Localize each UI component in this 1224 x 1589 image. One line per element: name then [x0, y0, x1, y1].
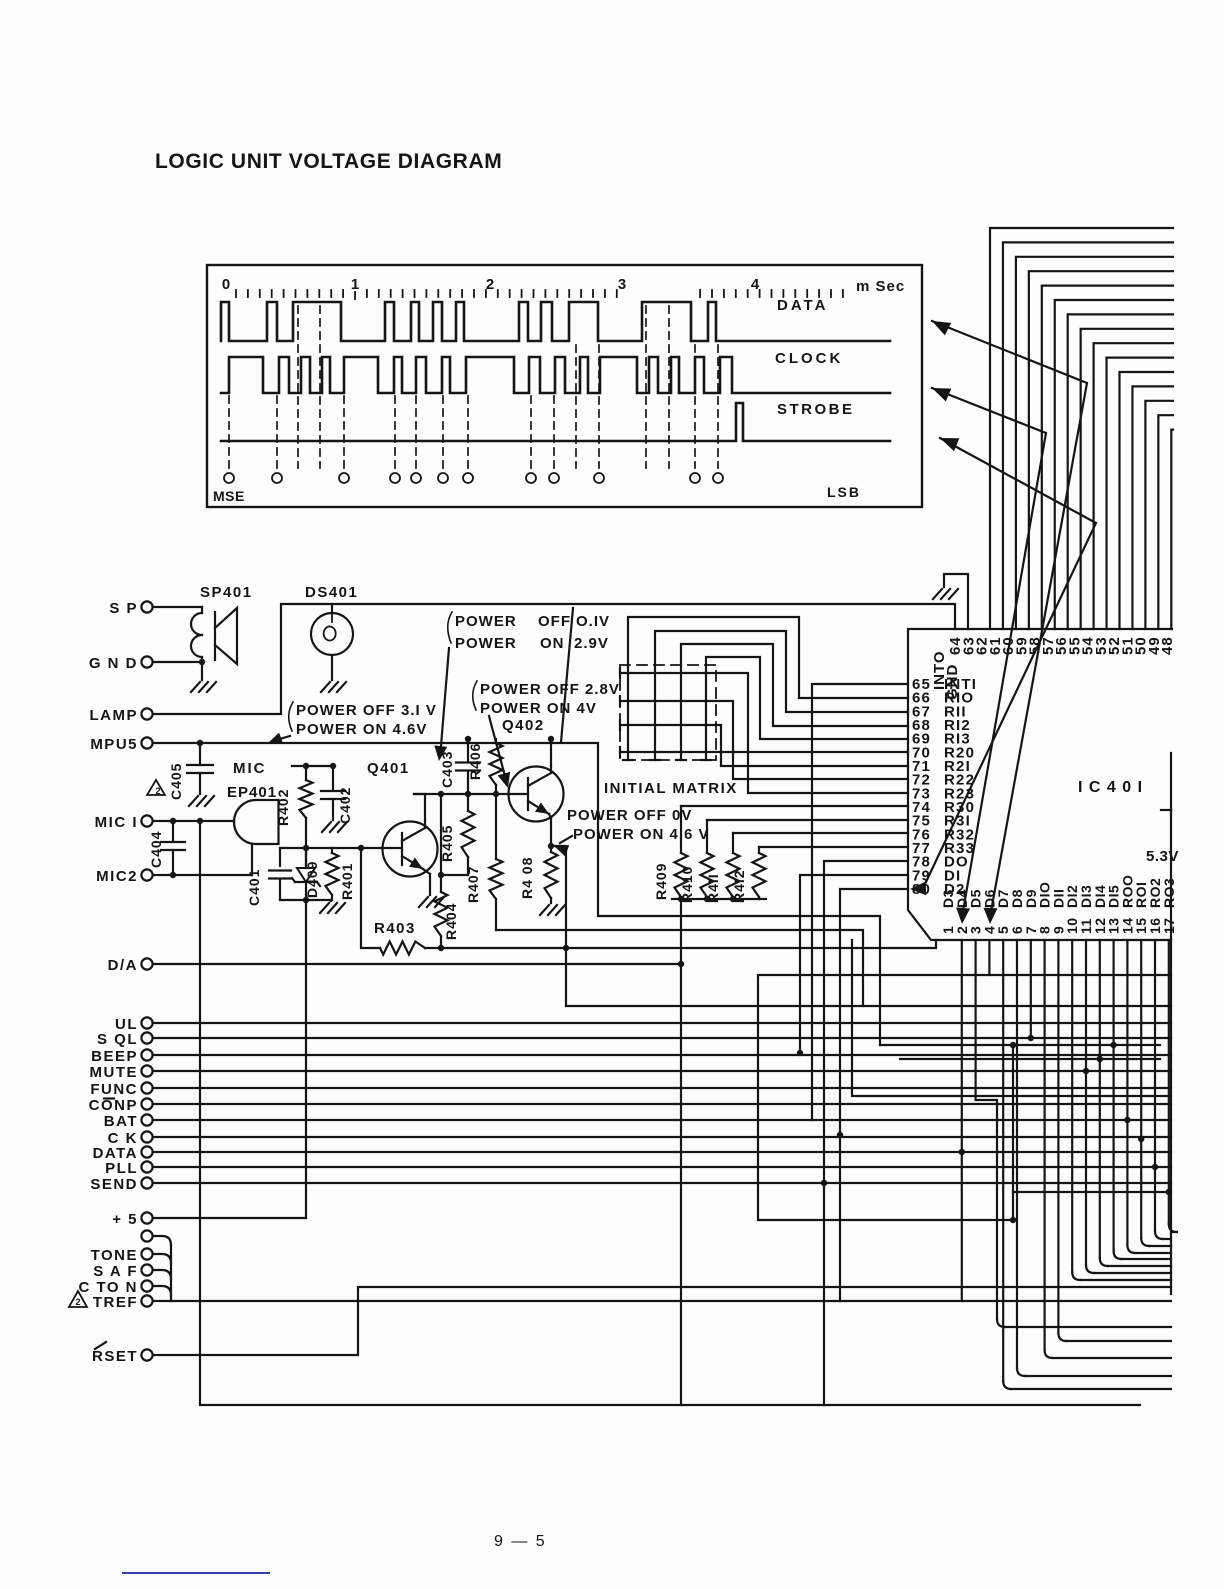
- warning triangle TREF: [69, 1291, 87, 1307]
- timing dashed bit lines: [229, 306, 718, 468]
- pin4 D6 wire: [988, 940, 990, 975]
- terminal SP: [109, 600, 152, 617]
- junction R403 R404: [438, 945, 444, 951]
- wire +5: [153, 1217, 306, 1219]
- line 1045 MPU5 to pin13: [880, 1044, 1160, 1046]
- junction speaker gnd: [199, 659, 205, 665]
- svg-text:RO3: RO3: [1161, 878, 1177, 908]
- IC401 outline: [908, 629, 1172, 940]
- wire R409 bottom rail: [672, 898, 766, 900]
- svg-text:R401: R401: [339, 863, 355, 900]
- pin14-17 wires: [1124, 940, 1177, 1253]
- terminal GND: [89, 655, 153, 672]
- svg-text:EP401: EP401: [227, 784, 277, 801]
- terminal CK: [108, 1130, 153, 1147]
- svg-text:2.9V: 2.9V: [574, 635, 609, 652]
- ground Q401: [419, 897, 428, 907]
- terminal LAMP: [90, 707, 153, 724]
- pin78 D0 wire: [824, 861, 908, 1405]
- junction 766 C402: [330, 763, 336, 769]
- capacitor C403: [467, 739, 469, 761]
- junction MPU5 C405: [197, 740, 203, 746]
- wire node lamp to IC pin64: [332, 604, 955, 629]
- terminal +5: [112, 1211, 152, 1228]
- pin80 arrowhead: [910, 881, 926, 895]
- svg-text:POWER OFF 3.I V: POWER OFF 3.I V: [296, 702, 437, 719]
- svg-text:2: 2: [486, 276, 494, 293]
- terminal PLL: [105, 1160, 152, 1177]
- svg-text:S A F: S A F: [93, 1263, 138, 1280]
- svg-text:POWER OFF 0V: POWER OFF 0V: [567, 807, 692, 824]
- wire R409 to pin74: [681, 805, 908, 807]
- line 1192: [1012, 1045, 1014, 1220]
- terminal NC: [141, 1230, 152, 1241]
- terminal FUNC: [90, 1081, 152, 1098]
- transistor Q401: [382, 820, 438, 877]
- junction pin11 MUTE: [1083, 1068, 1089, 1074]
- junction MIC2 C404: [170, 872, 176, 878]
- svg-text:2: 2: [155, 786, 160, 796]
- resistor R405: [467, 794, 469, 811]
- wire GND to speaker: [153, 661, 202, 663]
- svg-text:MIC2: MIC2: [96, 868, 138, 885]
- svg-text:m Sec: m Sec: [856, 278, 905, 295]
- top bus nested wires pins 62-48: [990, 228, 1173, 629]
- terminal SAF: [93, 1263, 152, 1280]
- wire emitter to lower bus: [551, 846, 566, 1006]
- +5 rail vertical: [305, 848, 307, 868]
- pin7 D9 wire to SQL: [1030, 940, 1032, 1038]
- wire LAMP terminal: [153, 604, 332, 714]
- capacitor C401: [279, 848, 281, 866]
- svg-text:INITIAL MATRIX: INITIAL MATRIX: [604, 780, 738, 797]
- junction MPU5 Q402: [548, 736, 554, 742]
- svg-text:17: 17: [1161, 917, 1177, 934]
- pin3 D5 wire: [976, 940, 997, 1319]
- pin80 D2 wire: [840, 889, 908, 1301]
- svg-text:POWER ON 4.6 V: POWER ON 4.6 V: [573, 826, 710, 843]
- resistor R412: [758, 847, 760, 853]
- matrix row R22: [619, 696, 621, 706]
- junction MIC1 C404: [170, 818, 176, 824]
- resistor R408: [550, 846, 552, 852]
- wire mic bottom: [251, 844, 253, 875]
- svg-text:R4 08: R4 08: [519, 857, 535, 899]
- svg-text:S P: S P: [109, 600, 138, 617]
- svg-text:ON: ON: [540, 635, 565, 652]
- wire D/A: [153, 963, 681, 965]
- svg-text:GND: GND: [944, 664, 961, 700]
- svg-text:R406: R406: [467, 743, 483, 780]
- svg-text:TREF: TREF: [93, 1294, 138, 1311]
- resistor R406: [495, 739, 497, 743]
- wire Q402 collector: [550, 739, 552, 766]
- timing diagram box: [207, 265, 922, 507]
- wire Q401 collector to rail794: [424, 794, 426, 820]
- junction R404 R405: [438, 872, 444, 878]
- svg-text:48: 48: [1159, 636, 1176, 655]
- terminal RSET: [92, 1348, 153, 1365]
- blue rule: [123, 1572, 269, 1574]
- terminal CTON: [78, 1279, 152, 1296]
- pin63 GND wire and ground: [944, 574, 968, 629]
- bus wires UL..SEND: [153, 1023, 1171, 1183]
- IC401 bottom pin labels 1-17: [940, 875, 1177, 934]
- wire R407 output: [496, 930, 863, 1006]
- terminal TONE: [91, 1247, 153, 1264]
- bit circles: [224, 473, 723, 483]
- svg-text:MSE: MSE: [213, 488, 245, 504]
- resistor R407: [495, 794, 497, 859]
- svg-text:SEND: SEND: [90, 1176, 138, 1193]
- CLOCK waveform: [221, 357, 890, 393]
- svg-text:C404: C404: [148, 831, 164, 868]
- terminal UL: [115, 1016, 153, 1033]
- junction MIC1 drop: [197, 818, 203, 824]
- line 1059: [900, 1058, 1160, 1060]
- line 975 chain: [758, 975, 1171, 1220]
- junction rail A D409: [303, 845, 309, 851]
- ground lamp: [321, 682, 330, 692]
- pin5 pin6 pin8 pin9 pin10 deep wires: [1003, 940, 1171, 1389]
- matrix column R10: [628, 617, 908, 760]
- svg-text:DATA: DATA: [777, 297, 828, 314]
- svg-text:MUTE: MUTE: [90, 1064, 139, 1081]
- svg-text:PLL: PLL: [105, 1160, 138, 1177]
- arrow to MPU5: [273, 736, 290, 741]
- capacitor C404: [172, 821, 174, 842]
- svg-text:LSB: LSB: [827, 484, 861, 500]
- svg-text:R410: R410: [679, 866, 695, 903]
- long vertical from MIC1 node: [200, 821, 1140, 1405]
- terminal SQL: [97, 1031, 153, 1048]
- capacitor C402: [332, 766, 334, 790]
- svg-text:R407: R407: [465, 866, 481, 903]
- wire rail 794: [414, 793, 509, 795]
- svg-text:S QL: S QL: [97, 1031, 138, 1048]
- junction MPU5 C403: [465, 736, 471, 742]
- terminal BEEP: [91, 1048, 152, 1065]
- initial matrix dashed box: [620, 665, 716, 760]
- callout line 2: [561, 608, 573, 742]
- resistor R404: [440, 794, 442, 892]
- IC401 top pin numbers 64-48: [947, 636, 1176, 655]
- svg-text:R409: R409: [653, 863, 669, 900]
- svg-text:MIC: MIC: [233, 760, 267, 777]
- svg-text:C401: C401: [246, 869, 262, 906]
- svg-text:DS401: DS401: [305, 584, 358, 601]
- wire rail 766: [292, 765, 333, 767]
- svg-text:MPU5: MPU5: [90, 736, 138, 753]
- wire MPU5 rail: [153, 743, 880, 1045]
- wire RSET: [153, 1287, 1171, 1355]
- wire MIC2: [153, 874, 252, 876]
- svg-text:R403: R403: [374, 920, 416, 937]
- svg-text:STROBE: STROBE: [777, 401, 855, 418]
- junction R403 emitter drop: [563, 945, 569, 951]
- arrow STROBE to pin80: [940, 438, 959, 451]
- svg-text:2: 2: [75, 1297, 80, 1307]
- arrow to base: [489, 716, 506, 780]
- RSET tick mark: [95, 1342, 106, 1349]
- junction bottom rail D409: [303, 897, 309, 903]
- resistor R409: [680, 806, 682, 853]
- wire MIC1: [153, 820, 234, 822]
- svg-text:3: 3: [618, 276, 626, 293]
- IC401 left pin labels 65-80: [912, 676, 977, 898]
- transistor Q402: [509, 766, 564, 822]
- ground R408: [540, 905, 549, 915]
- wire base rail Q401: [280, 847, 382, 849]
- terminal MPU5: [90, 736, 152, 753]
- wire Q402 emitter node: [549, 814, 551, 818]
- arrow to emitter: [560, 836, 572, 843]
- svg-text:BEEP: BEEP: [91, 1048, 138, 1065]
- IC401 right edge: [1170, 810, 1172, 1294]
- svg-text:C405: C405: [168, 763, 184, 800]
- resistor R411: [732, 833, 734, 853]
- svg-text:OFF: OFF: [538, 613, 571, 630]
- svg-text:1: 1: [351, 276, 359, 293]
- svg-text:4: 4: [751, 276, 760, 293]
- arrow CLOCK to pin2: [932, 388, 951, 401]
- svg-text:MIC I: MIC I: [95, 814, 138, 831]
- terminal TREF: [93, 1294, 153, 1311]
- resistor R401: [331, 848, 333, 853]
- svg-text:SP401: SP401: [200, 584, 253, 601]
- svg-text:POWER: POWER: [455, 635, 517, 652]
- small terminal hooks: [153, 1236, 171, 1301]
- wire R412 to pin77: [759, 846, 908, 848]
- wire Q401 emitter to ground: [423, 869, 430, 874]
- arrow to rail: [441, 648, 449, 746]
- svg-text:POWER ON 4V: POWER ON 4V: [480, 700, 597, 717]
- svg-text:C402: C402: [337, 787, 353, 824]
- svg-text:9 — 5: 9 — 5: [494, 1533, 547, 1550]
- svg-text:RSET: RSET: [92, 1348, 138, 1365]
- terminal D/A: [108, 957, 153, 974]
- svg-text:POWER ON 4.6V: POWER ON 4.6V: [296, 721, 427, 738]
- junction rail A R403: [358, 845, 364, 851]
- pin11-13 wires junctions: [1072, 940, 1171, 1280]
- wire bottom rail: [280, 899, 331, 901]
- resistor R402: [305, 766, 307, 780]
- warning triangle 2: [147, 780, 165, 795]
- junction 794 R404: [438, 791, 444, 797]
- svg-text:POWER OFF 2.8V: POWER OFF 2.8V: [480, 681, 620, 698]
- ground speaker: [191, 682, 200, 692]
- wire to ground: [201, 662, 203, 680]
- junction 766 R402: [303, 763, 309, 769]
- terminal CONP: [89, 1097, 153, 1114]
- svg-text:D/A: D/A: [108, 957, 138, 974]
- svg-text:I C 4 0 I: I C 4 0 I: [1078, 779, 1143, 796]
- terminal BAT: [104, 1113, 153, 1130]
- DATA waveform: [221, 302, 890, 341]
- terminal DATA: [93, 1145, 153, 1162]
- arrow DATA to pin4: [932, 321, 951, 335]
- junction D/A R409 rail: [678, 961, 684, 967]
- svg-text:R4I2: R4I2: [731, 869, 747, 903]
- speaker SP401: [191, 607, 237, 664]
- matrix column R11: [655, 631, 908, 760]
- svg-text:R402: R402: [275, 789, 291, 826]
- svg-text:G N D: G N D: [89, 655, 138, 672]
- CONP overline: [104, 1097, 114, 1099]
- wire 1006 bus: [566, 1005, 1171, 1007]
- pin79 D1 wire: [800, 875, 908, 1053]
- ground C405: [189, 796, 198, 806]
- svg-text:Q402: Q402: [502, 717, 545, 734]
- pin2 D4 wire to DATA: [961, 940, 963, 1301]
- resistor R403: [361, 848, 380, 948]
- terminal SEND: [90, 1176, 152, 1193]
- zener diode D409: [305, 848, 307, 868]
- svg-text:BAT: BAT: [104, 1113, 138, 1130]
- terminal MICI: [95, 814, 153, 831]
- ruler scale msec: [222, 276, 905, 299]
- pin65 INT1 wire: [812, 684, 908, 1120]
- wire TREF: [153, 1300, 1171, 1302]
- wire lamp to ground: [331, 655, 333, 680]
- junction emitter node: [548, 843, 554, 849]
- microphone EP401: [234, 800, 279, 844]
- matrix column R12: [681, 644, 908, 760]
- resistor R410: [706, 820, 708, 853]
- matrix row R23: [619, 668, 621, 678]
- svg-text:0: 0: [222, 276, 230, 293]
- ground C402: [322, 822, 331, 832]
- ground bottom rail: [330, 900, 332, 901]
- junction 794 C403: [465, 791, 471, 797]
- matrix row R21: [619, 720, 621, 730]
- svg-text:LOGIC UNIT VOLTAGE DIAGRAM: LOGIC UNIT VOLTAGE DIAGRAM: [155, 150, 502, 173]
- wire R411 to pin76: [733, 832, 908, 834]
- svg-text:CLOCK: CLOCK: [775, 350, 843, 367]
- svg-text:+ 5: + 5: [112, 1211, 138, 1228]
- matrix column R13: [706, 657, 908, 760]
- svg-text:POWER: POWER: [455, 613, 517, 630]
- lamp DS401: [311, 613, 353, 655]
- svg-text:Q401: Q401: [367, 760, 410, 777]
- svg-text:R4II: R4II: [705, 873, 721, 903]
- wire 1096 line: [852, 940, 1171, 1096]
- svg-text:LAMP: LAMP: [90, 707, 139, 724]
- svg-text:FUNC: FUNC: [90, 1081, 138, 1098]
- STROBE waveform: [221, 403, 890, 441]
- terminal MIC2: [96, 868, 152, 885]
- svg-text:R404: R404: [443, 903, 459, 940]
- capacitor C405: [199, 743, 201, 765]
- wire SP to speaker: [153, 606, 202, 608]
- svg-text:TONE: TONE: [91, 1247, 138, 1264]
- svg-text:O.IV: O.IV: [576, 613, 610, 630]
- terminal MUTE: [90, 1064, 153, 1081]
- matrix row R20: [619, 747, 621, 757]
- wire R410 to pin75: [707, 819, 908, 821]
- svg-text:5.3V: 5.3V: [1146, 848, 1179, 865]
- IC401 right bracket: [1161, 809, 1171, 811]
- junction 794 R406 R407: [493, 791, 499, 797]
